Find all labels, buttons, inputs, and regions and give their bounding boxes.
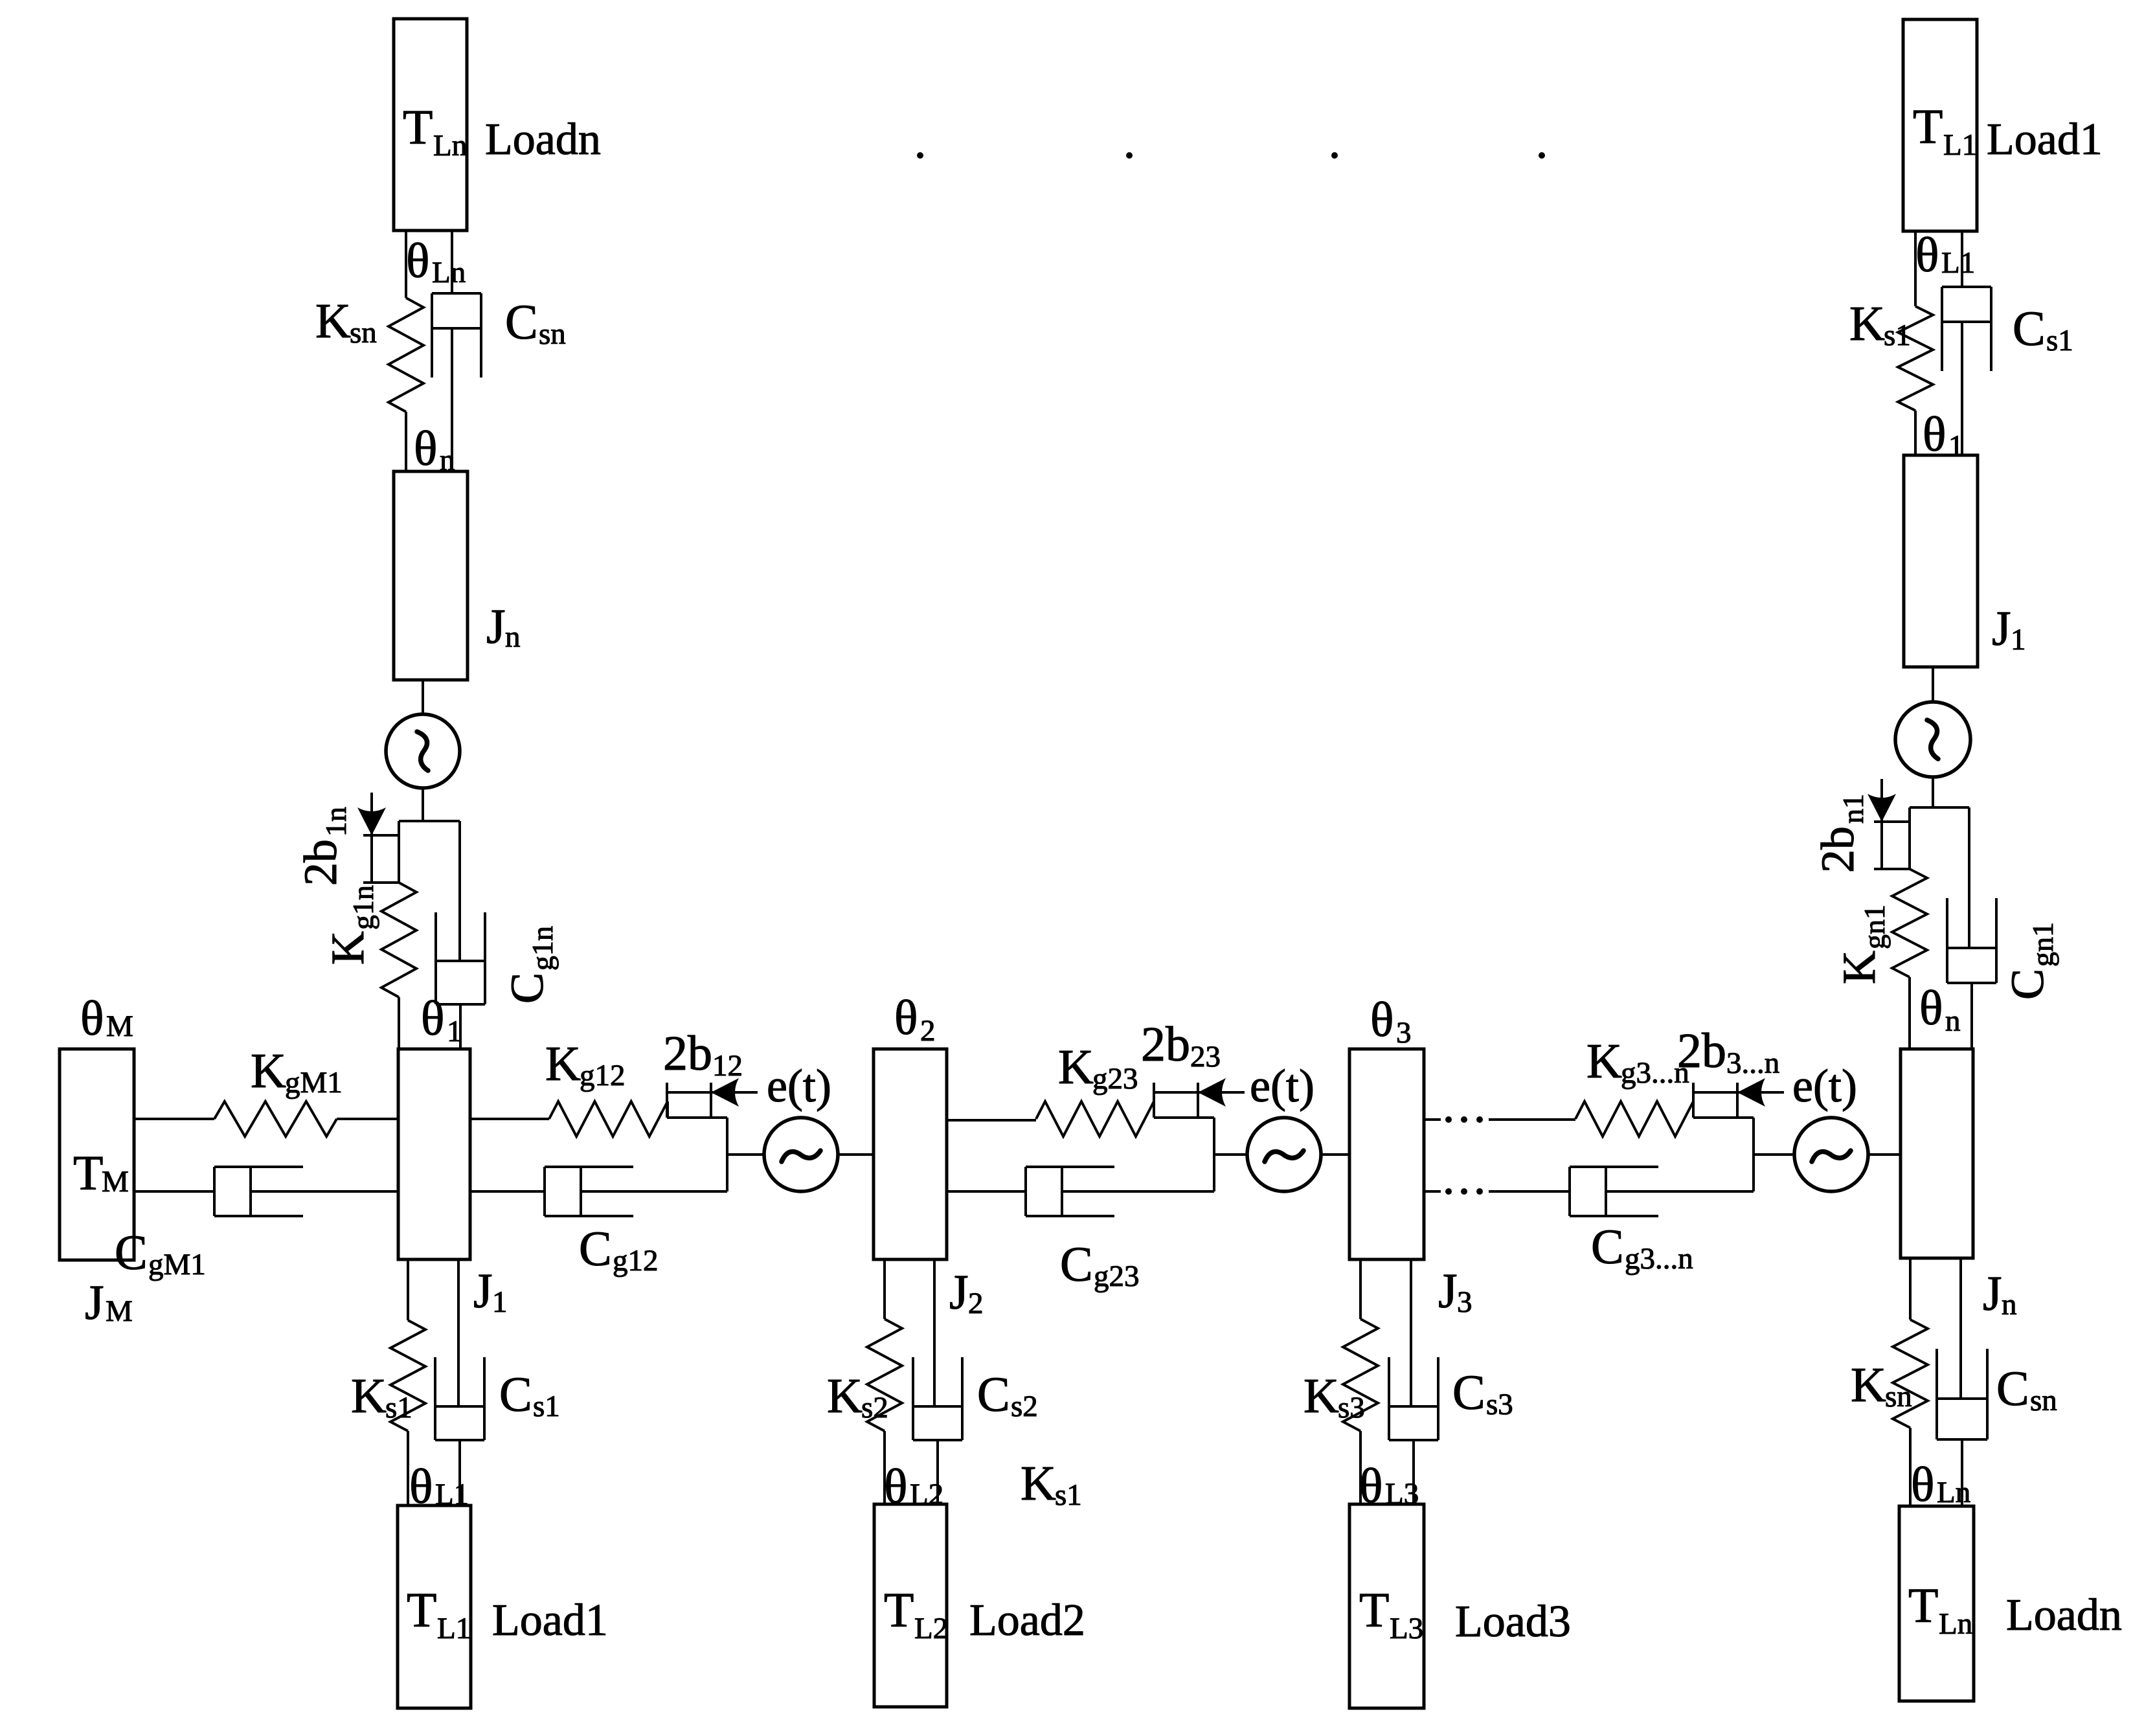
label C_s2 [977, 1368, 1038, 1423]
label J_n (right) [1983, 1267, 2017, 1322]
source circle (mesh n-1) [1895, 702, 1970, 777]
wire J1 to spring K_s1 [407, 1259, 409, 1320]
label T_Ln (right) [1908, 1579, 1972, 1641]
wire stub J3 lower [1424, 1190, 1441, 1193]
damper C_s1 (right) [1942, 231, 1991, 455]
damper C_s2 [913, 1259, 962, 1504]
svg-text:K: K [1833, 951, 1885, 984]
wire spring K_sn to J_n [405, 412, 407, 471]
label Load1 (left) [492, 1595, 608, 1645]
svg-text:g23: g23 [1094, 1259, 1140, 1293]
svg-text:θ: θ [1911, 1458, 1934, 1512]
svg-text:J: J [85, 1276, 104, 1330]
svg-text:g12: g12 [580, 1059, 626, 1092]
T-bar junction (branch 1-n) [399, 820, 460, 822]
label J_1 (below J1) [473, 1264, 508, 1319]
svg-text:θ: θ [421, 991, 444, 1046]
label theta_2 [894, 991, 936, 1048]
wire J2 to spring K_s2 [883, 1259, 886, 1319]
svg-text:L3: L3 [1390, 1612, 1423, 1645]
svg-text:C: C [2002, 969, 2053, 1000]
svg-text:L2: L2 [914, 1612, 948, 1645]
svg-text:C: C [499, 1368, 532, 1422]
label Load2 [969, 1595, 1085, 1645]
svg-text:θ: θ [80, 991, 104, 1046]
label T_L2 [884, 1583, 948, 1645]
svg-text:Loadn: Loadn [485, 115, 601, 164]
damper C_g1n [436, 821, 485, 1049]
wire source to J3 [1321, 1153, 1349, 1156]
label K_s3 [1303, 1369, 1365, 1425]
label theta_M [80, 991, 133, 1046]
svg-text:23: 23 [1190, 1040, 1221, 1074]
label K_g1n [322, 885, 379, 965]
label K_g23 [1058, 1040, 1138, 1096]
svg-text:gM1: gM1 [148, 1248, 206, 1281]
svg-text:3: 3 [1396, 1016, 1412, 1050]
spring K_gn1 [1892, 869, 1927, 977]
svg-text:L1: L1 [437, 1612, 471, 1645]
svg-text:Ln: Ln [1939, 1607, 1972, 1641]
svg-text:K: K [1021, 1456, 1056, 1511]
svg-text:gM1: gM1 [285, 1066, 343, 1099]
label theta_Ln (left branch) [406, 234, 466, 289]
wire upper to spring K_g3n [1489, 1118, 1575, 1121]
svg-text:J: J [949, 1265, 969, 1320]
spring K_g12 [549, 1101, 668, 1136]
svg-text:1: 1 [1948, 429, 1964, 463]
spring K_s1 (left) [390, 1320, 425, 1431]
source circle (mesh 2-3) [1247, 1118, 1321, 1191]
svg-text:K: K [1851, 1358, 1886, 1412]
label K_s1 (stray) [1021, 1456, 1082, 1512]
svg-text:θ: θ [1915, 228, 1939, 282]
svg-text:C: C [1452, 1366, 1485, 1420]
svg-text:3...n: 3...n [1726, 1046, 1779, 1080]
svg-text:sn: sn [1885, 1380, 1912, 1414]
wire backlash to source (mesh 3-n) [1754, 1153, 1794, 1156]
label K_gM1 [251, 1044, 343, 1099]
svg-text:L1: L1 [1943, 128, 1977, 162]
wire spring K_sn to Loadn [1909, 1428, 1912, 1506]
inertia block Load n right (T_Ln) [1899, 1506, 1974, 1701]
wire stub J3 upper [1424, 1118, 1441, 1121]
svg-text:g23: g23 [1092, 1062, 1138, 1096]
svg-text:1: 1 [447, 1015, 462, 1048]
svg-text:s3: s3 [1338, 1391, 1365, 1425]
wire J1 to spring K_g12 [470, 1118, 549, 1120]
svg-text:s1: s1 [1055, 1478, 1082, 1512]
label J_M [85, 1276, 133, 1330]
label theta_L1 (left) [409, 1460, 469, 1514]
wire J_n to source [422, 680, 424, 714]
inertia block Load 2 (T_L2) [874, 1504, 947, 1707]
backlash 2b_1n [357, 793, 399, 883]
label T_L1 (right) [1913, 100, 1977, 162]
damper C_s3 [1389, 1259, 1438, 1504]
label K_g12 [545, 1037, 626, 1092]
wire spring K_s2 to Load2 [883, 1431, 886, 1504]
source circle (mesh 1-2) [764, 1118, 838, 1191]
inertia block Load n (T_Ln) [394, 19, 467, 231]
label J_n (left branch) [486, 600, 521, 654]
svg-text:θ: θ [414, 422, 437, 476]
inertia block J_M [60, 1049, 134, 1260]
svg-text:M: M [106, 1294, 133, 1328]
svg-text:J: J [1438, 1264, 1458, 1318]
svg-text:g3...n: g3...n [1625, 1242, 1693, 1276]
label theta_L1 (right) [1915, 228, 1975, 282]
wire spring K_g23 to backlash [1153, 1101, 1155, 1118]
svg-text:g12: g12 [613, 1244, 659, 1278]
svg-text:θ: θ [1919, 981, 1943, 1035]
label K_sn (right) [1851, 1358, 1912, 1414]
svg-text:n1: n1 [1836, 794, 1869, 824]
svg-text:θ: θ [1370, 993, 1394, 1047]
svg-text:J: J [486, 600, 506, 654]
wire J2 to spring K_g23 [947, 1119, 1036, 1122]
spring K_gM1 [214, 1101, 337, 1136]
damper C_g12 [470, 1167, 727, 1216]
svg-text:J: J [1992, 602, 2011, 656]
svg-text:T: T [403, 100, 433, 155]
spring K_s1 (right) [1898, 306, 1933, 411]
svg-text:2b: 2b [1141, 1017, 1190, 1072]
svg-text:1n: 1n [319, 807, 352, 837]
label Load1 (right) [1987, 115, 2103, 164]
svg-text:s1: s1 [1884, 319, 1911, 352]
svg-text:e(t): e(t) [1792, 1060, 1857, 1112]
svg-text:s3: s3 [1486, 1388, 1513, 1421]
wire spring K_g1n to J1 [398, 997, 400, 1049]
svg-text:n: n [2002, 1288, 2017, 1322]
label theta_n (left branch) [414, 422, 455, 477]
svg-text:T: T [1913, 100, 1943, 154]
svg-text:M: M [106, 1009, 133, 1043]
source circle (mesh 3-n) [1794, 1118, 1868, 1191]
label J_1 (right) [1992, 602, 2026, 657]
label theta_1 (above J1) [421, 991, 462, 1048]
svg-text:Ln: Ln [433, 129, 467, 163]
wire source to backlash (right) [1932, 777, 1934, 807]
wire spring K_g12 to backlash [666, 1101, 669, 1118]
svg-text:C: C [579, 1222, 612, 1276]
svg-text:T: T [1359, 1583, 1389, 1638]
svg-text:C: C [1996, 1362, 2029, 1416]
svg-text:Ln: Ln [1937, 1476, 1970, 1509]
wire J_1 right to source [1932, 667, 1934, 702]
label C_g1n [501, 926, 559, 1004]
svg-text:L2: L2 [910, 1478, 943, 1511]
damper C_gM1 [134, 1167, 398, 1216]
wire backlash to source (mesh 1-2) [727, 1153, 763, 1156]
svg-text:T: T [884, 1583, 914, 1638]
svg-text:T: T [407, 1583, 436, 1638]
inertia block Jn (right) [1901, 1049, 1973, 1258]
svg-text:θ: θ [894, 991, 918, 1045]
svg-text:2b: 2b [1812, 826, 1864, 873]
inertia block J_n (left branch) [394, 471, 468, 680]
label C_s1 (right) [2013, 302, 2073, 357]
label T_M [73, 1146, 129, 1201]
damper C_g3...n [1489, 1167, 1754, 1216]
svg-text:e(t): e(t) [1250, 1060, 1315, 1112]
label C_gn1 [2002, 922, 2059, 1000]
svg-text:2b: 2b [1677, 1024, 1726, 1078]
spring K_s3 [1343, 1319, 1378, 1431]
svg-text:J: J [473, 1264, 493, 1318]
svg-text:L1: L1 [1941, 246, 1975, 280]
inertia block Load 3 (T_L3) [1349, 1504, 1424, 1708]
svg-text:g1n: g1n [346, 885, 379, 930]
svg-text:e(t): e(t) [767, 1060, 831, 1112]
label K_gn1 [1833, 905, 1891, 984]
label K_s1 (left) [351, 1369, 412, 1425]
label C_gM1 [115, 1226, 206, 1281]
label T_Ln [403, 100, 467, 163]
svg-text:1: 1 [2011, 623, 2026, 657]
spring K_sn (right) [1893, 1320, 1928, 1428]
damper C_sn (left branch) [432, 231, 481, 471]
inertia block Load 1 (T_L1) [398, 1505, 471, 1708]
svg-text:K: K [315, 294, 351, 348]
svg-text:C: C [1060, 1237, 1093, 1292]
label Loadn (right) [2006, 1590, 2122, 1640]
svg-text:1: 1 [492, 1285, 508, 1319]
spring K_g3...n [1575, 1101, 1693, 1136]
label theta_1 (right) [1923, 407, 1964, 463]
wire source to J2 [838, 1153, 874, 1156]
svg-text:θ: θ [1923, 407, 1946, 462]
svg-text:3: 3 [1457, 1285, 1473, 1319]
svg-text:sn: sn [350, 316, 377, 350]
svg-text:K: K [1586, 1034, 1622, 1088]
wire spring K_s3 to Load3 [1359, 1431, 1362, 1504]
label C_sn (left branch) [505, 295, 566, 351]
label C_s3 [1452, 1366, 1513, 1421]
svg-text:s2: s2 [1011, 1390, 1038, 1423]
svg-text:K: K [322, 931, 374, 965]
spring K_sn (left branch) [389, 298, 423, 412]
svg-text:C: C [2013, 302, 2046, 356]
inertia block J_1 (right) [1904, 455, 1978, 667]
spring K_s2 [867, 1319, 902, 1431]
label Loadn [485, 115, 601, 164]
label 2b_n1 [1812, 794, 1869, 873]
backlash 2b_12 [667, 1078, 758, 1191]
svg-text:K: K [351, 1369, 387, 1423]
label e(t) (mesh 1-2) [767, 1060, 831, 1112]
ellipsis dots upper (J3 right) [1445, 1116, 1483, 1123]
svg-text:K: K [545, 1037, 581, 1091]
svg-text:T: T [1908, 1579, 1938, 1633]
wire J_M to spring K_gM1 [134, 1118, 214, 1120]
wire source to backlash [422, 788, 424, 821]
wire spring K_s1 to Load1 [407, 1431, 409, 1505]
label K_g3...n [1586, 1034, 1689, 1090]
svg-text:T: T [73, 1146, 103, 1201]
label theta_L2 [884, 1460, 943, 1514]
label theta_Ln (right) [1911, 1458, 1970, 1512]
svg-text:sn: sn [2030, 1384, 2057, 1417]
svg-text:C: C [977, 1368, 1010, 1422]
svg-text:Load2: Load2 [969, 1595, 1085, 1645]
label 2b_1n [295, 807, 352, 886]
svg-text:K: K [1303, 1369, 1339, 1423]
wire spring K_gn1 to Jn [1908, 977, 1911, 1049]
svg-text:K: K [827, 1369, 863, 1423]
svg-text:Load3: Load3 [1455, 1597, 1571, 1647]
svg-text:gn1: gn1 [1858, 905, 1891, 949]
svg-text:2b: 2b [295, 839, 346, 886]
source circle (mesh 1-n) [386, 714, 460, 788]
label theta_n (right) [1919, 981, 1961, 1038]
label C_g12 [579, 1222, 659, 1278]
ellipsis dots top row [917, 152, 1545, 159]
wire load1 right-left line [1914, 231, 1917, 306]
label 2b_12 [663, 1026, 743, 1083]
label theta_L3 [1359, 1459, 1419, 1513]
label e(t) (mesh 3-n) [1792, 1060, 1857, 1112]
wire J3 to spring K_s3 [1359, 1259, 1362, 1319]
label J_2 [949, 1265, 984, 1320]
svg-text:K: K [1058, 1040, 1094, 1094]
svg-text:s1: s1 [385, 1391, 412, 1425]
wire spring K_gM1 to J1 [337, 1118, 398, 1120]
svg-text:2b: 2b [663, 1026, 712, 1081]
svg-text:2: 2 [968, 1287, 984, 1320]
svg-text:K: K [251, 1044, 286, 1098]
label J_3 [1438, 1264, 1473, 1319]
svg-text:C: C [1591, 1220, 1624, 1274]
inertia block J1 [398, 1049, 470, 1259]
svg-text:K: K [1849, 297, 1885, 351]
svg-text:Load1: Load1 [1987, 115, 2103, 164]
label e(t) (mesh 2-3) [1250, 1060, 1315, 1112]
label K_s2 [827, 1369, 888, 1425]
inertia block J3 [1349, 1049, 1424, 1259]
svg-text:M: M [102, 1165, 129, 1199]
svg-text:C: C [115, 1226, 148, 1280]
wire Jn to spring K_sn [1909, 1258, 1912, 1320]
inertia block J2 [874, 1049, 947, 1259]
label C_sn (right) [1996, 1362, 2057, 1417]
svg-text:gn1: gn1 [2026, 922, 2059, 967]
spring K_g1n [381, 883, 416, 997]
label 2b_23 [1141, 1017, 1221, 1074]
damper C_gn1 [1947, 807, 1996, 1049]
label C_s1 (left) [499, 1368, 560, 1423]
backlash 2b_23 [1154, 1078, 1245, 1191]
ellipsis dots lower (J3 right) [1445, 1188, 1483, 1195]
svg-text:C: C [501, 973, 553, 1004]
svg-text:C: C [505, 295, 538, 350]
svg-text:s1: s1 [533, 1390, 560, 1423]
label T_L1 (left) [407, 1583, 471, 1645]
wire source to Jn [1868, 1153, 1901, 1156]
svg-text:s1: s1 [2046, 324, 2073, 357]
svg-text:g1n: g1n [526, 926, 559, 971]
label T_L3 [1359, 1583, 1423, 1645]
label theta_3 [1370, 993, 1412, 1050]
wire spring K_g3n to backlash [1692, 1101, 1695, 1118]
svg-text:Ln: Ln [432, 256, 466, 289]
svg-text:s2: s2 [861, 1391, 888, 1425]
label Load3 [1455, 1597, 1571, 1647]
backlash 2b_3...n [1693, 1078, 1784, 1191]
svg-text:n: n [505, 620, 521, 654]
wire backlash to source (mesh 2-3) [1214, 1153, 1247, 1156]
backlash 2b_n1 [1868, 779, 1910, 869]
label 2b_3...n [1677, 1024, 1779, 1080]
svg-text:J: J [1983, 1267, 2002, 1321]
svg-text:n: n [1945, 1004, 1961, 1038]
label K_s1 (right) [1849, 297, 1911, 352]
svg-text:12: 12 [712, 1049, 743, 1083]
damper C_s1 (left) [435, 1259, 484, 1505]
svg-text:sn: sn [539, 317, 566, 351]
inertia block Load 1 right (T_L1) [1903, 19, 1977, 231]
svg-text:Loadn: Loadn [2006, 1590, 2122, 1640]
spring K_g23 [1036, 1101, 1154, 1136]
label C_g23 [1060, 1237, 1140, 1293]
svg-text:θ: θ [406, 234, 429, 288]
svg-text:2: 2 [920, 1014, 936, 1048]
label K_sn (left branch) [315, 294, 377, 350]
damper C_sn (right) [1937, 1258, 1987, 1506]
wire load-n left [405, 231, 407, 298]
wire spring K_s1 to J_1 right [1914, 411, 1917, 455]
T-bar junction (branch n-1) [1910, 806, 1969, 809]
label C_g3...n [1591, 1220, 1693, 1276]
damper C_g23 [947, 1167, 1214, 1216]
svg-text:Load1: Load1 [492, 1595, 608, 1645]
